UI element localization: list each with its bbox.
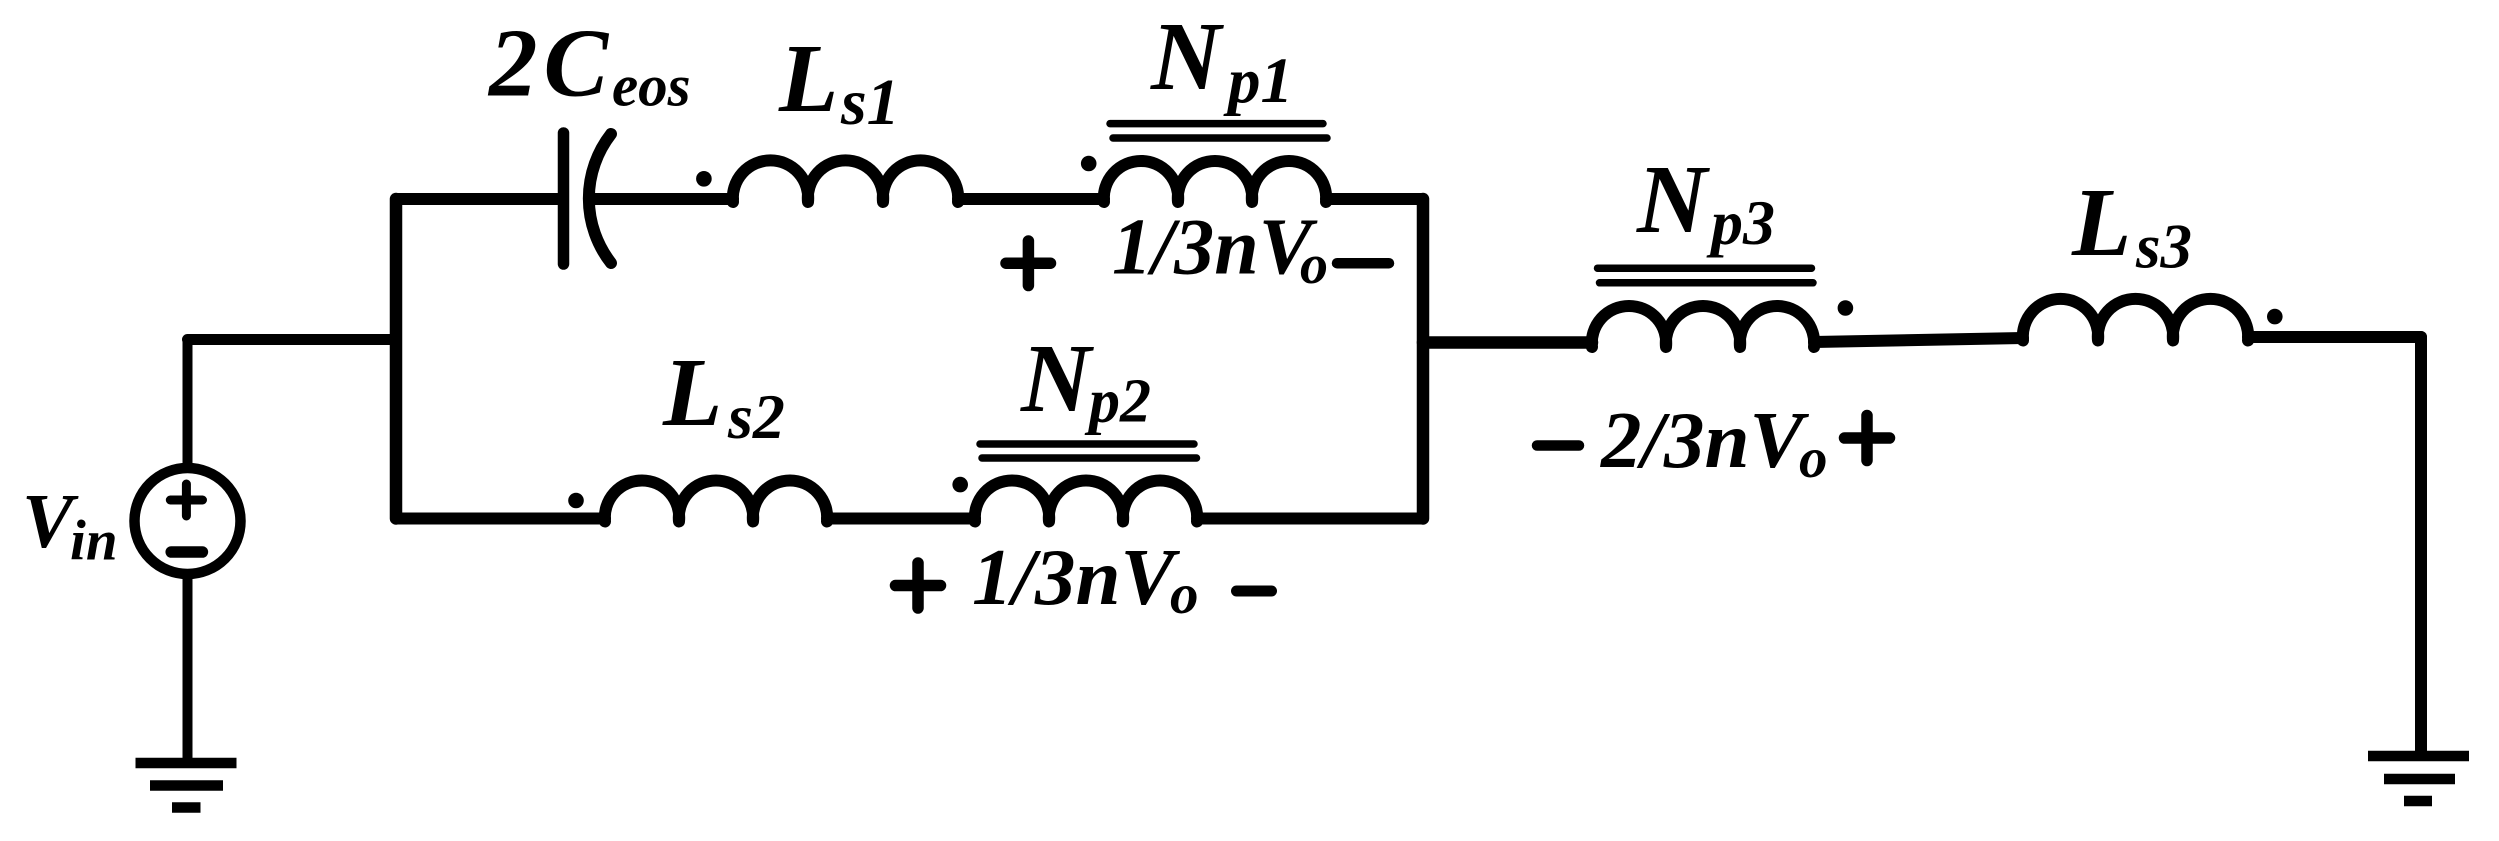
wire left bus vertical — [390, 199, 403, 519]
svg-text:s3: s3 — [2135, 212, 2192, 282]
wire top branch: Ls1 to Np1 — [958, 193, 1104, 205]
svg-text:eos: eos — [612, 53, 691, 119]
svg-text:s2: s2 — [727, 381, 785, 452]
label Vin — [22, 478, 118, 573]
phase dot Ls1 — [696, 171, 712, 187]
label 1/3nVo top — [1112, 204, 1328, 297]
label Ls1 — [778, 25, 900, 139]
label Ls2 — [662, 339, 785, 452]
Vin minus sign — [171, 546, 202, 558]
label Ls3 — [2071, 169, 2192, 282]
label Np3 — [1636, 146, 1775, 258]
wire top branch: Np1 to right bus — [1326, 193, 1423, 205]
phase dot Np1 — [1081, 156, 1097, 172]
wire bottom branch: Np2 to right bus — [1197, 513, 1423, 525]
winding Np2 core bars — [980, 444, 1197, 458]
wire top branch: capacitor to Ls1 — [592, 193, 733, 205]
wire Vin to left bus horizontal — [188, 334, 397, 345]
svg-text:o: o — [1799, 427, 1828, 490]
ground left — [136, 763, 237, 808]
winding Np3 — [1592, 306, 1814, 347]
capacitor 2Ceos left plate — [558, 133, 570, 264]
svg-text:N: N — [1150, 3, 1224, 110]
capacitor 2Ceos curved plate — [589, 134, 611, 263]
svg-text:s1: s1 — [840, 66, 900, 139]
svg-text:p2: p2 — [1084, 368, 1151, 436]
label 1/3nVo bottom — [972, 532, 1199, 626]
plus sign top (1/3nVo) — [1006, 241, 1051, 286]
phase dot Np3 — [1838, 300, 1854, 316]
svg-text:N: N — [1636, 146, 1710, 253]
svg-text:p3: p3 — [1706, 187, 1775, 258]
label Np1 — [1150, 3, 1293, 117]
winding Np2 — [975, 480, 1197, 521]
inductor Ls1 — [733, 160, 958, 202]
svg-text:o: o — [1170, 563, 1199, 626]
wire middle output: right bus to Np3 — [1423, 336, 1592, 349]
plus sign bottom (1/3nVo) — [896, 563, 941, 608]
winding Np1 — [1104, 161, 1326, 202]
svg-text:L: L — [2071, 169, 2131, 276]
wire middle output: Np3 to Ls3 — [1814, 338, 2023, 342]
winding Np1 core bars — [1110, 124, 1327, 138]
svg-text:p1: p1 — [1223, 45, 1293, 117]
minus sign top (1/3nVo) — [1337, 258, 1389, 269]
Vin plus sign — [170, 484, 202, 516]
svg-text:in: in — [70, 510, 118, 573]
label 2Ceos — [487, 10, 691, 119]
svg-text:L: L — [662, 339, 722, 446]
winding Np3 core bars — [1598, 268, 1814, 283]
svg-text:N: N — [1020, 325, 1094, 432]
svg-text:o: o — [1300, 234, 1328, 296]
wire middle output: Ls3 to right corner — [2248, 331, 2421, 343]
inductor Ls3 — [2023, 299, 2248, 341]
minus sign bottom (1/3nVo) — [1237, 586, 1272, 597]
phase dot Ls3 — [2267, 309, 2283, 325]
svg-text:1/3nV: 1/3nV — [1112, 204, 1318, 292]
wire bottom branch: left bus to Ls2 — [396, 513, 605, 525]
svg-text:2/3nV: 2/3nV — [1600, 395, 1810, 485]
phase dot Np2 — [952, 477, 968, 493]
voltage source Vin circle — [135, 468, 241, 574]
wire bottom branch: Ls2 to Np2 — [827, 513, 975, 525]
wire Vin stem top — [183, 340, 193, 464]
label 2/3nVo middle — [1600, 395, 1828, 490]
wire Vin stem bottom — [183, 579, 193, 759]
minus sign middle (2/3nVo) — [1537, 440, 1579, 451]
wire right bus vertical — [1417, 199, 1430, 519]
svg-text:L: L — [778, 25, 838, 132]
phase dot Ls2 — [568, 493, 584, 509]
wire top branch: left bus to capacitor — [396, 193, 558, 205]
inductor Ls2 — [605, 480, 827, 521]
svg-text:2C: 2C — [487, 10, 614, 117]
label Np2 — [1020, 325, 1151, 436]
plus sign middle (2/3nVo) — [1845, 416, 1890, 461]
wire right vertical to ground — [2415, 337, 2427, 751]
svg-text:1/3nV: 1/3nV — [972, 532, 1181, 622]
ground right — [2368, 756, 2469, 801]
